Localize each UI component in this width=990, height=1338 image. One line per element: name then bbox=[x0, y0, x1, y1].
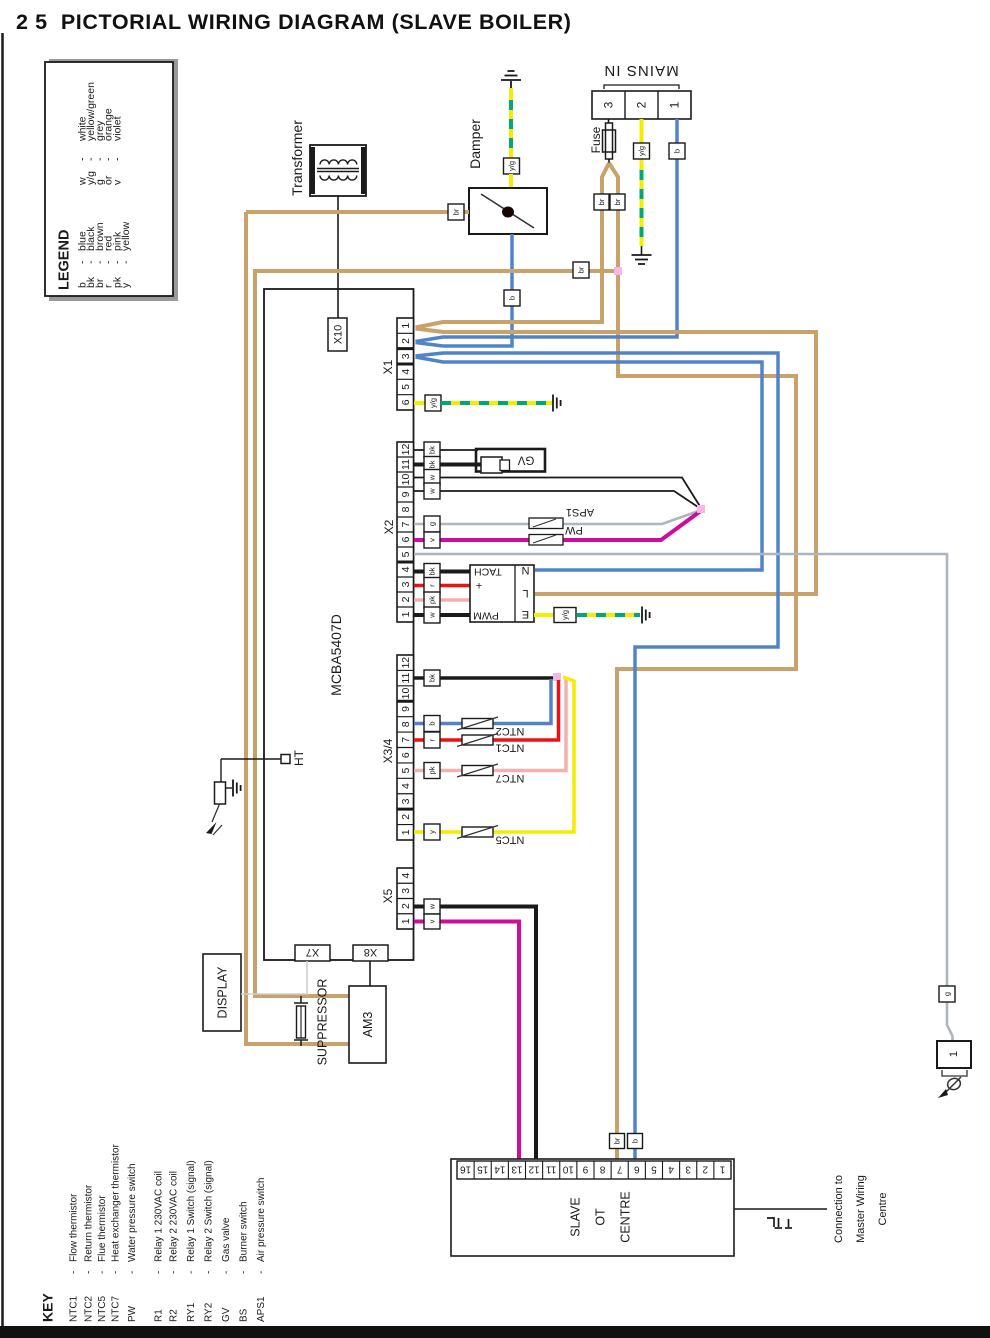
svg-text:-: - bbox=[97, 1271, 108, 1274]
thermistor NTC2 bbox=[462, 719, 493, 729]
svg-text:NTC1: NTC1 bbox=[68, 1295, 79, 1322]
svg-text:y/g: y/g bbox=[561, 610, 570, 620]
wire br damper to left trunk bbox=[246, 210, 469, 214]
wire X8 to AM3 bbox=[369, 961, 371, 986]
svg-text:8: 8 bbox=[400, 506, 412, 512]
svg-text:OT: OT bbox=[593, 1208, 607, 1226]
wire display to X7 bbox=[241, 961, 307, 994]
svg-text:bk: bk bbox=[428, 567, 437, 575]
label br damper bbox=[448, 204, 464, 220]
svg-text:10: 10 bbox=[400, 688, 412, 700]
svg-text:12: 12 bbox=[400, 444, 412, 456]
svg-text:Gas valve: Gas valve bbox=[221, 1217, 232, 1262]
pen symbol bbox=[946, 1077, 962, 1092]
svg-text:4: 4 bbox=[668, 1164, 674, 1175]
svg-text:L: L bbox=[522, 587, 528, 599]
svg-text:3: 3 bbox=[602, 101, 616, 108]
svg-text:9: 9 bbox=[400, 706, 412, 712]
svg-text:GV: GV bbox=[517, 453, 534, 465]
thermistor NTC1 bbox=[462, 735, 493, 745]
svg-text:1: 1 bbox=[719, 1164, 725, 1175]
svg-text:8: 8 bbox=[400, 721, 412, 727]
svg-text:+: + bbox=[476, 579, 482, 591]
svg-text:b: b bbox=[673, 149, 682, 153]
wire v X2 pin6 to PW bbox=[414, 512, 700, 541]
svg-text:Flue thermistor: Flue thermistor bbox=[97, 1195, 108, 1262]
svg-text:-: - bbox=[68, 1271, 79, 1274]
svg-text:g: g bbox=[428, 522, 437, 526]
svg-text:2: 2 bbox=[400, 814, 412, 820]
slave OT centre box bbox=[451, 1159, 734, 1256]
svg-text:X5: X5 bbox=[381, 888, 395, 903]
page left border bbox=[1, 33, 4, 1330]
svg-text:10: 10 bbox=[562, 1164, 574, 1175]
fuse F1 bbox=[606, 123, 613, 159]
svg-text:X10: X10 bbox=[332, 325, 344, 345]
wire v X5 pin1 to OT centre pin13 bbox=[414, 922, 519, 1161]
svg-text:11: 11 bbox=[400, 673, 412, 684]
gas valve GV bbox=[476, 449, 545, 472]
wire bk X3/4 pin11 to NTC common bbox=[414, 676, 555, 680]
label b mains1 bbox=[669, 143, 685, 159]
wire bk X2 pin4 to fan TACH bbox=[414, 570, 471, 574]
svg-text:7: 7 bbox=[616, 1164, 622, 1175]
svg-text:PW: PW bbox=[127, 1305, 138, 1322]
svg-text:9: 9 bbox=[400, 491, 412, 497]
svg-text:KEY: KEY bbox=[40, 1293, 56, 1322]
wire w X2 pin9 bbox=[414, 491, 701, 509]
svg-text:8: 8 bbox=[599, 1164, 605, 1175]
svg-text:y: y bbox=[428, 830, 437, 834]
svg-text:bk: bk bbox=[428, 674, 437, 682]
svg-text:16: 16 bbox=[460, 1164, 472, 1175]
wire br horizontal to left trunk 2 bbox=[255, 271, 618, 996]
svg-text:br: br bbox=[613, 198, 622, 205]
svg-text:Relay 1 Switch (signal): Relay 1 Switch (signal) bbox=[186, 1160, 197, 1262]
wire g X2 pin7 to APS1 bbox=[414, 511, 700, 525]
earth OT centre bbox=[767, 1218, 774, 1227]
wire y/g fan E to earth bbox=[534, 613, 556, 617]
svg-text:E: E bbox=[522, 608, 529, 620]
svg-text:R1: R1 bbox=[153, 1309, 164, 1322]
svg-text:b: b bbox=[428, 721, 437, 725]
svg-text:3: 3 bbox=[400, 581, 412, 587]
wire b damper arrow lower stroke bbox=[416, 343, 444, 347]
wire b damper down bbox=[443, 234, 512, 346]
wire y/g X1 pin6 bbox=[414, 401, 426, 405]
svg-text:b: b bbox=[508, 296, 517, 300]
controller MCBA5407D box bbox=[264, 289, 414, 960]
svg-text:g: g bbox=[943, 992, 952, 996]
svg-text:RY2: RY2 bbox=[203, 1302, 214, 1322]
svg-text:3: 3 bbox=[400, 888, 412, 894]
wire y mains 2 bbox=[640, 119, 644, 172]
svg-text:-: - bbox=[127, 1271, 138, 1274]
mains bracket bbox=[604, 85, 679, 89]
svg-text:3: 3 bbox=[400, 798, 412, 804]
svg-text:5: 5 bbox=[400, 384, 412, 390]
wire OT centre E bbox=[734, 1208, 827, 1210]
AM3 box bbox=[349, 986, 386, 1063]
wire transformer to X10 bbox=[337, 196, 339, 318]
svg-text:6: 6 bbox=[634, 1164, 640, 1175]
wire br fuse right arm trunk to OT centre pin7 bbox=[609, 163, 796, 1160]
svg-text:br: br bbox=[613, 1137, 622, 1144]
svg-text:PW: PW bbox=[565, 524, 583, 536]
svg-text:4: 4 bbox=[400, 566, 412, 572]
svg-text:6: 6 bbox=[400, 536, 412, 542]
svg-text:-: - bbox=[120, 260, 132, 264]
svg-text:2: 2 bbox=[635, 101, 649, 108]
connector X8 bbox=[353, 945, 388, 961]
wire y/g damper earth bbox=[509, 88, 513, 188]
svg-text:1: 1 bbox=[400, 918, 412, 924]
svg-text:DISPLAY: DISPLAY bbox=[215, 966, 229, 1019]
svg-text:Flow thermistor: Flow thermistor bbox=[68, 1193, 79, 1262]
water pressure switch PW bbox=[529, 535, 563, 546]
svg-text:LEGEND: LEGEND bbox=[56, 230, 72, 290]
svg-text:Water pressure switch: Water pressure switch bbox=[127, 1163, 138, 1262]
svg-text:-: - bbox=[83, 1271, 94, 1274]
page bottom bar bbox=[0, 1326, 990, 1338]
svg-text:y/g: y/g bbox=[507, 161, 516, 171]
wire r X2 pin3 to fan + bbox=[414, 584, 471, 588]
svg-text:10: 10 bbox=[400, 474, 412, 486]
wire g X2 pin5 to remote connector 1 bbox=[414, 554, 953, 1041]
svg-text:v: v bbox=[428, 919, 437, 923]
svg-text:13: 13 bbox=[511, 1164, 523, 1175]
label br trunk2 bbox=[573, 262, 589, 278]
svg-text:6: 6 bbox=[400, 752, 412, 758]
junction pink harness bbox=[697, 505, 705, 513]
svg-text:-: - bbox=[186, 1271, 197, 1274]
svg-text:5: 5 bbox=[400, 768, 412, 774]
svg-text:w: w bbox=[428, 474, 437, 481]
earth electrode bbox=[226, 787, 233, 789]
wire w X2 pin10 bbox=[414, 478, 701, 509]
svg-text:Connection to: Connection to bbox=[833, 1175, 845, 1243]
svg-text:GV: GV bbox=[221, 1307, 232, 1322]
svg-text:6: 6 bbox=[400, 399, 412, 405]
svg-text:bk: bk bbox=[428, 446, 437, 454]
svg-text:SUPPRESSOR: SUPPRESSOR bbox=[315, 979, 329, 1066]
label b OT pin6 bbox=[628, 1134, 643, 1149]
svg-text:1: 1 bbox=[400, 323, 412, 329]
svg-text:NTC7: NTC7 bbox=[110, 1295, 121, 1322]
svg-text:1: 1 bbox=[400, 829, 412, 835]
svg-text:y/g: y/g bbox=[429, 398, 438, 408]
svg-text:NTC1: NTC1 bbox=[496, 742, 525, 754]
svg-text:Master Wiring: Master Wiring bbox=[855, 1175, 867, 1243]
svg-text:X1: X1 bbox=[381, 359, 395, 374]
connector X2 bbox=[397, 442, 414, 622]
svg-text:v: v bbox=[428, 538, 437, 542]
svg-text:Relay 1 230VAC coil: Relay 1 230VAC coil bbox=[153, 1171, 164, 1262]
svg-text:CENTRE: CENTRE bbox=[618, 1191, 632, 1242]
svg-text:X3/4: X3/4 bbox=[381, 738, 395, 763]
wire mains 3 to fuse bbox=[608, 119, 610, 127]
wire w X2 pin1 to fan PWM bbox=[414, 613, 471, 617]
ignition electrode bbox=[220, 759, 222, 782]
label b damper bbox=[504, 290, 520, 306]
svg-text:1: 1 bbox=[668, 101, 682, 108]
label br fuse left bbox=[594, 194, 609, 210]
svg-text:1: 1 bbox=[400, 611, 412, 617]
earth mains 2 bbox=[641, 246, 643, 255]
label y/g damper bbox=[504, 158, 520, 174]
svg-text:2: 2 bbox=[400, 338, 412, 344]
earth fan E bbox=[641, 607, 643, 624]
svg-text:4: 4 bbox=[400, 873, 412, 879]
svg-text:4: 4 bbox=[400, 369, 412, 375]
svg-text:14: 14 bbox=[494, 1164, 506, 1175]
connector X10 bbox=[328, 318, 347, 351]
svg-text:3: 3 bbox=[400, 353, 412, 359]
wire r X3/4 pin7 NTC1 bbox=[414, 680, 559, 740]
svg-text:-: - bbox=[238, 1271, 249, 1274]
legend box shadow bbox=[49, 59, 178, 301]
svg-text:Return thermistor: Return thermistor bbox=[83, 1184, 94, 1262]
remote bracket bbox=[942, 1070, 967, 1076]
svg-text:12: 12 bbox=[400, 657, 412, 669]
svg-text:11: 11 bbox=[546, 1164, 557, 1175]
svg-text:v: v bbox=[111, 179, 123, 185]
svg-text:-: - bbox=[110, 1271, 121, 1274]
svg-text:br: br bbox=[452, 208, 461, 215]
wire b X1 pin3 upper to OT centre pin6 bbox=[416, 353, 779, 1160]
wire pk X2 pin2 to fan bbox=[414, 598, 471, 602]
wire bk X2 pin12 to GV bbox=[414, 449, 478, 451]
svg-text:12: 12 bbox=[528, 1164, 540, 1175]
svg-text:X8: X8 bbox=[364, 946, 377, 958]
transformer T1 bbox=[310, 145, 366, 196]
svg-text:-: - bbox=[256, 1271, 267, 1274]
wire br left trunk 1 to AM3 bbox=[246, 212, 349, 1044]
svg-text:Damper: Damper bbox=[467, 119, 483, 169]
svg-text:TACH: TACH bbox=[474, 565, 502, 577]
svg-text:Relay 2 230VAC coil: Relay 2 230VAC coil bbox=[168, 1171, 179, 1262]
svg-text:5: 5 bbox=[651, 1164, 657, 1175]
wire y X3/4 pin1 NTC5 bbox=[414, 677, 574, 832]
wire b X1 pin3 lower to fan N bbox=[416, 357, 763, 570]
svg-text:9: 9 bbox=[582, 1164, 588, 1175]
junction pink NTC common bbox=[553, 673, 561, 681]
svg-text:pk: pk bbox=[428, 596, 437, 604]
wire w X5 pin2 to OT centre pin12 bbox=[414, 907, 536, 1161]
svg-text:pk: pk bbox=[428, 766, 437, 774]
svg-text:violet: violet bbox=[111, 116, 123, 141]
svg-text:-: - bbox=[168, 1271, 179, 1274]
svg-text:-: - bbox=[203, 1271, 214, 1274]
wire b X3/4 pin8 NTC2 bbox=[414, 679, 551, 724]
fan connector bbox=[470, 565, 534, 622]
svg-text:5: 5 bbox=[400, 551, 412, 557]
svg-text:Burner switch: Burner switch bbox=[238, 1201, 249, 1262]
air pressure switch APS1 bbox=[529, 518, 563, 529]
svg-text:Relay 2 Switch (signal): Relay 2 Switch (signal) bbox=[203, 1160, 214, 1262]
remote connector 1 bbox=[937, 1041, 971, 1068]
svg-text:2: 2 bbox=[702, 1164, 708, 1175]
connector mains in bbox=[592, 91, 691, 119]
svg-text:Centre: Centre bbox=[877, 1192, 889, 1225]
OT centre terminal strip bbox=[457, 1161, 731, 1179]
legend box bbox=[45, 62, 173, 296]
svg-text:7: 7 bbox=[400, 737, 412, 743]
svg-text:N: N bbox=[521, 564, 529, 576]
svg-text:3: 3 bbox=[685, 1164, 691, 1175]
svg-text:AM3: AM3 bbox=[361, 1012, 375, 1038]
svg-text:RY1: RY1 bbox=[186, 1302, 197, 1322]
svg-text:NTC2: NTC2 bbox=[496, 725, 525, 737]
HT terminal bbox=[221, 758, 281, 760]
earth damper top bbox=[501, 79, 521, 81]
display box bbox=[203, 954, 241, 1031]
svg-text:APS1: APS1 bbox=[566, 506, 594, 518]
damper box bbox=[469, 188, 547, 234]
connector X5 bbox=[397, 868, 414, 929]
svg-text:R2: R2 bbox=[168, 1309, 179, 1322]
svg-text:BS: BS bbox=[238, 1308, 249, 1322]
svg-text:y: y bbox=[120, 282, 132, 288]
label g remote bbox=[939, 986, 955, 1002]
svg-text:-: - bbox=[153, 1271, 164, 1274]
label br OT pin7 bbox=[610, 1134, 625, 1149]
svg-text:X7: X7 bbox=[306, 946, 319, 958]
connector X1 bbox=[397, 318, 414, 410]
svg-text:APS1: APS1 bbox=[256, 1296, 267, 1322]
svg-text:X2: X2 bbox=[382, 519, 396, 534]
svg-text:NTC2: NTC2 bbox=[83, 1295, 94, 1322]
svg-text:y/g: y/g bbox=[637, 146, 646, 156]
svg-text:w: w bbox=[428, 612, 437, 619]
svg-text:w: w bbox=[428, 488, 437, 495]
svg-text:HT: HT bbox=[292, 749, 306, 766]
svg-text:PWM: PWM bbox=[473, 609, 499, 621]
svg-text:SLAVE: SLAVE bbox=[568, 1197, 582, 1236]
svg-text:7: 7 bbox=[400, 521, 412, 527]
svg-text:-: - bbox=[221, 1271, 232, 1274]
svg-text:Heat exchanger thermistor: Heat exchanger thermistor bbox=[110, 1143, 121, 1262]
svg-text:Fuse: Fuse bbox=[589, 126, 603, 153]
earth X1 pin6 bbox=[552, 395, 554, 412]
svg-text:Transformer: Transformer bbox=[289, 120, 305, 196]
wire bk X2 pin11 to GV plug bbox=[414, 463, 484, 467]
svg-text:br: br bbox=[597, 198, 606, 205]
svg-text:br: br bbox=[577, 266, 586, 273]
svg-text:15: 15 bbox=[477, 1164, 489, 1175]
svg-text:w: w bbox=[428, 903, 437, 910]
svg-text:4: 4 bbox=[400, 783, 412, 789]
wire pk X3/4 pin5 NTC7 bbox=[414, 679, 566, 771]
svg-text:2 5 PICTORIAL WIRING DIAGRAM: 2 5 PICTORIAL WIRING DIAGRAM (SLAVE BOIL… bbox=[16, 10, 572, 34]
thermistor NTC7 bbox=[462, 766, 493, 776]
svg-text:1: 1 bbox=[948, 1051, 960, 1057]
connector X3/4 bbox=[397, 655, 414, 840]
svg-text:bk: bk bbox=[428, 460, 437, 468]
svg-text:11: 11 bbox=[400, 459, 412, 470]
svg-text:NTC5: NTC5 bbox=[97, 1295, 108, 1322]
svg-text:2: 2 bbox=[400, 903, 412, 909]
junction pink mains brown bbox=[614, 267, 622, 275]
wire br X1 pin1 lower to fan L bbox=[416, 329, 817, 595]
wire y/g mains 2 dashed bbox=[640, 155, 644, 246]
svg-text:yellow: yellow bbox=[120, 221, 132, 251]
svg-text:b: b bbox=[631, 1139, 640, 1143]
svg-text:-: - bbox=[111, 157, 123, 161]
svg-text:2: 2 bbox=[400, 596, 412, 602]
wire br fuse left arm to X1 pin1 bbox=[416, 163, 610, 328]
label y/g mains2 bbox=[634, 143, 650, 159]
svg-text:MAINS IN: MAINS IN bbox=[603, 62, 678, 79]
svg-text:NTC5: NTC5 bbox=[496, 834, 525, 846]
connector X7 bbox=[295, 945, 330, 961]
suppressor bbox=[300, 996, 302, 1003]
label br fuse right bbox=[610, 194, 625, 210]
svg-text:Air pressure switch: Air pressure switch bbox=[256, 1178, 267, 1262]
thermistor NTC5 bbox=[462, 827, 493, 837]
wire b mains 1 to X1 pin2 bbox=[416, 119, 678, 342]
svg-text:MCBA5407D: MCBA5407D bbox=[328, 614, 344, 696]
svg-text:NTC7: NTC7 bbox=[496, 772, 525, 784]
